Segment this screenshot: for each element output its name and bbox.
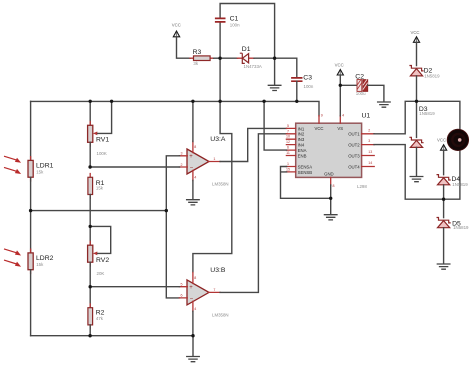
- wire VCC to R3: [177, 37, 191, 58]
- svg-text:2: 2: [368, 128, 370, 132]
- svg-text:L298: L298: [357, 184, 367, 189]
- svg-text:VCC: VCC: [437, 137, 446, 142]
- LDR LDR1: [28, 101, 54, 210]
- svg-text:1N5819: 1N5819: [453, 225, 469, 230]
- svg-text:U3:A: U3:A: [210, 136, 226, 143]
- svg-text:10: 10: [286, 135, 290, 139]
- svg-text:VCC: VCC: [410, 30, 419, 35]
- wire ENA from bus: [264, 101, 287, 150]
- capacitor C1: [215, 15, 240, 27]
- svg-text:LM358N: LM358N: [212, 181, 229, 186]
- svg-text:1N5819: 1N5819: [452, 182, 468, 187]
- svg-text:100K: 100K: [97, 151, 107, 156]
- wire LDR junction rail (node P): [31, 210, 167, 212]
- svg-text:13: 13: [368, 150, 372, 154]
- svg-text:GND: GND: [324, 171, 334, 176]
- LDR2 light arrows: [4, 249, 21, 267]
- svg-text:LDR1: LDR1: [36, 162, 54, 169]
- IC U1 L298: [286, 112, 374, 189]
- svg-text:4: 4: [342, 114, 344, 118]
- power flag VCC (VS pin): [335, 62, 344, 115]
- power flag VCC (D4): [437, 137, 447, 174]
- svg-text:RV2: RV2: [96, 257, 109, 264]
- svg-text:3: 3: [181, 152, 183, 156]
- svg-text:1N4733A: 1N4733A: [244, 64, 262, 69]
- capacitor C3: [275, 58, 314, 101]
- wire U3:A output to IN1: [220, 128, 287, 161]
- svg-text:15k: 15k: [36, 170, 44, 175]
- svg-text:5: 5: [287, 124, 289, 128]
- diode D2 (1N5819): [409, 66, 440, 102]
- potentiometer RV2: [88, 226, 111, 307]
- motor M (DC motor): [447, 129, 468, 150]
- svg-text:OUT4: OUT4: [348, 164, 360, 169]
- svg-text:4: 4: [194, 176, 196, 180]
- capacitor C2 (100u electrolytic): [340, 73, 384, 101]
- svg-text:15: 15: [286, 167, 290, 171]
- svg-text:15k: 15k: [96, 186, 104, 191]
- LDR LDR2: [28, 211, 54, 336]
- wire 5V bus rail: [31, 101, 319, 115]
- svg-text:IN2: IN2: [298, 132, 305, 137]
- wire U3:A inverting input from RV1/R1 node: [90, 166, 179, 168]
- diode D1 (zener 1N4733A): [220, 46, 275, 69]
- svg-text:OUT2: OUT2: [348, 143, 360, 148]
- svg-text:SENSA: SENSA: [298, 164, 313, 169]
- svg-text:1N5819: 1N5819: [424, 73, 440, 78]
- wire bottom ground rail: [31, 335, 193, 337]
- svg-text:11: 11: [286, 151, 290, 155]
- resistor R2: [88, 304, 105, 336]
- wire SENSA/SENSB to ground: [281, 167, 331, 199]
- svg-text:100n: 100n: [304, 84, 314, 89]
- svg-text:−: −: [190, 166, 194, 172]
- wire U3:A V+ from bus: [192, 101, 194, 141]
- svg-text:IN1: IN1: [298, 126, 305, 131]
- svg-text:VCC: VCC: [314, 126, 323, 131]
- svg-text:LDR2: LDR2: [36, 255, 54, 262]
- svg-text:6: 6: [287, 146, 289, 150]
- op-amp U3:B: [179, 267, 228, 317]
- svg-text:12: 12: [286, 140, 290, 144]
- wire OUT1 to motor top: [374, 101, 460, 134]
- ground (D1 node): [268, 58, 281, 90]
- svg-text:ENB: ENB: [298, 153, 307, 158]
- svg-text:IN3: IN3: [298, 137, 305, 142]
- svg-text:+: +: [189, 285, 193, 291]
- ground (C2): [378, 102, 391, 107]
- svg-text:−: −: [190, 297, 194, 303]
- svg-text:IN4: IN4: [298, 143, 305, 148]
- svg-text:8: 8: [333, 184, 335, 188]
- svg-text:1N5819: 1N5819: [419, 111, 435, 116]
- svg-text:SENSB: SENSB: [298, 170, 313, 175]
- svg-text:U1: U1: [362, 112, 371, 119]
- wire U3:B V- to ground rail: [192, 311, 194, 335]
- power flag VCC (top left): [172, 23, 181, 37]
- resistor R1: [88, 174, 105, 246]
- wire R3 to node: [214, 57, 221, 59]
- svg-text:100u: 100u: [356, 91, 366, 96]
- svg-text:C2: C2: [355, 73, 364, 80]
- svg-text:20K: 20K: [97, 271, 105, 276]
- svg-text:8: 8: [194, 145, 196, 149]
- wire U3:B output to IN2: [220, 134, 287, 293]
- svg-text:D1: D1: [242, 46, 251, 53]
- wire C1 top loop: [220, 4, 275, 59]
- svg-text:OUT1: OUT1: [348, 132, 360, 137]
- ground (U3:A V-): [187, 180, 200, 205]
- svg-text:9: 9: [321, 114, 323, 118]
- svg-text:LM358N: LM358N: [212, 313, 229, 318]
- svg-text:7: 7: [213, 288, 215, 292]
- svg-text:6: 6: [181, 294, 183, 298]
- svg-text:C3: C3: [303, 74, 312, 81]
- svg-text:VCC: VCC: [172, 23, 181, 28]
- svg-text:5: 5: [181, 283, 183, 287]
- svg-text:RV1: RV1: [96, 137, 109, 144]
- svg-text:15k: 15k: [36, 262, 44, 267]
- svg-text:3: 3: [368, 139, 370, 143]
- svg-text:2: 2: [181, 163, 183, 167]
- power flag VCC (D2): [410, 30, 419, 66]
- svg-text:3k: 3k: [193, 61, 198, 66]
- svg-text:8: 8: [194, 276, 196, 280]
- svg-text:4: 4: [194, 307, 196, 311]
- wire U3:A non-inverting input (node P riser): [166, 156, 179, 298]
- diode D5 (1N5819): [437, 199, 470, 264]
- ground (D5): [437, 264, 450, 269]
- svg-text:100n: 100n: [230, 22, 240, 27]
- op-amp U3:A: [179, 136, 228, 186]
- resistor R3: [190, 49, 214, 66]
- svg-text:VS: VS: [337, 126, 343, 131]
- wire zener rail to U3:B supply: [193, 58, 232, 272]
- diode D4 (1N5819): [437, 175, 469, 200]
- svg-text:14: 14: [368, 161, 372, 165]
- ground (bottom rail): [187, 336, 200, 362]
- wire OUT2 to motor bottom: [374, 145, 460, 200]
- svg-text:VCC: VCC: [335, 62, 344, 67]
- svg-text:OUT3: OUT3: [348, 153, 360, 158]
- svg-text:U3:B: U3:B: [210, 267, 226, 274]
- ground (D3): [410, 177, 423, 182]
- svg-text:7: 7: [287, 129, 289, 133]
- svg-text:C1: C1: [230, 15, 239, 22]
- diode D3 (1N5819): [409, 101, 435, 176]
- LDR1 light arrows: [4, 156, 21, 174]
- svg-text:+: +: [189, 154, 193, 160]
- svg-text:1: 1: [213, 157, 215, 161]
- potentiometer RV1: [88, 101, 112, 166]
- ground (U1 GND pin): [324, 185, 337, 220]
- svg-text:1: 1: [287, 162, 289, 166]
- svg-text:ENA: ENA: [298, 148, 307, 153]
- svg-text:R3: R3: [193, 49, 202, 56]
- wire U3:B non-inverting input from RV2/R2 node: [90, 286, 179, 288]
- svg-text:47k: 47k: [96, 316, 104, 321]
